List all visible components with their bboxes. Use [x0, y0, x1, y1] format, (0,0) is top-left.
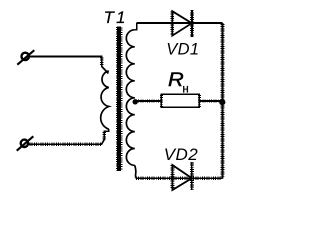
diode VD2 triangle — [172, 165, 192, 190]
wire bottom-left input to primary — [29, 143, 102, 145]
svg-text:T: T — [104, 8, 116, 27]
transformer core — [117, 27, 122, 172]
wire top horizontal (secondary to VD1 to rail) — [137, 22, 223, 24]
terminal X2 (bottom-left input) — [17, 136, 34, 150]
wire secondary top lead — [135, 23, 137, 30]
svg-text:1: 1 — [116, 8, 125, 27]
wire resistor to rail — [199, 100, 222, 102]
wire primary top lead vertical — [101, 56, 103, 67]
wire secondary bottom lead curve — [135, 165, 136, 177]
wire primary bottom lead step — [104, 129, 109, 140]
svg-text:н: н — [182, 84, 188, 96]
transformer T1 secondary winding lower half — [126, 98, 134, 166]
svg-text:VD2: VD2 — [164, 145, 198, 164]
wire right rail — [222, 23, 224, 178]
diode VD1 triangle — [172, 11, 192, 35]
wire center tap to resistor — [135, 100, 161, 102]
wire top-left input to primary — [29, 56, 103, 58]
wire bottom horizontal (secondary to VD2 to rail) — [135, 177, 222, 179]
transformer T1 primary winding — [101, 71, 109, 129]
diode VD1 anode bar — [171, 11, 173, 36]
node center tap junction — [133, 99, 138, 104]
node resistor-rail junction — [219, 99, 225, 105]
terminal X1 (top-left input) — [17, 50, 34, 64]
wire primary top lead diagonal — [102, 67, 109, 74]
label T1 — [104, 8, 126, 27]
diode VD2 cathode bar — [191, 162, 193, 190]
diode VD1 cathode bar — [191, 10, 193, 37]
transformer T1 secondary winding upper half — [126, 30, 135, 98]
diode VD2 anode bar — [171, 165, 173, 190]
label Rn — [168, 69, 189, 95]
resistor Rn body — [161, 94, 199, 107]
svg-text:VD1: VD1 — [166, 40, 199, 58]
wire primary bottom lead diagonal — [102, 140, 105, 145]
